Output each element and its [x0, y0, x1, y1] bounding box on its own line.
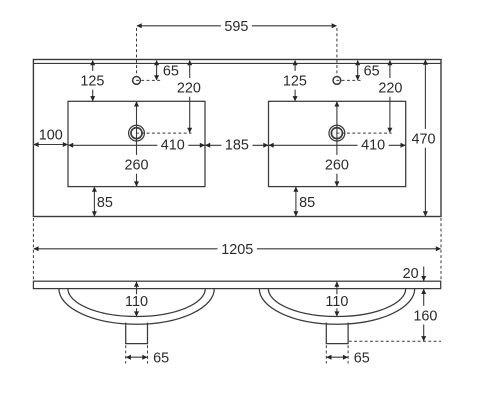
svg-text:260: 260 [124, 157, 148, 173]
svg-text:110: 110 [325, 294, 348, 310]
svg-text:125: 125 [283, 73, 307, 89]
svg-text:220: 220 [378, 81, 402, 97]
svg-text:65: 65 [163, 63, 179, 79]
svg-text:20: 20 [403, 266, 419, 282]
svg-text:160: 160 [413, 308, 437, 324]
svg-text:595: 595 [224, 19, 248, 35]
svg-text:125: 125 [80, 73, 104, 89]
svg-text:470: 470 [411, 131, 435, 147]
svg-text:100: 100 [39, 128, 63, 144]
svg-text:185: 185 [225, 138, 249, 154]
svg-text:260: 260 [325, 157, 349, 173]
svg-text:65: 65 [354, 350, 370, 366]
svg-text:410: 410 [361, 138, 385, 154]
svg-text:410: 410 [161, 138, 185, 154]
svg-text:85: 85 [299, 195, 315, 211]
svg-text:110: 110 [125, 294, 148, 310]
svg-text:85: 85 [97, 195, 113, 211]
svg-text:1205: 1205 [221, 242, 253, 258]
svg-text:220: 220 [177, 81, 201, 97]
svg-text:65: 65 [364, 64, 380, 80]
svg-text:65: 65 [153, 350, 169, 366]
